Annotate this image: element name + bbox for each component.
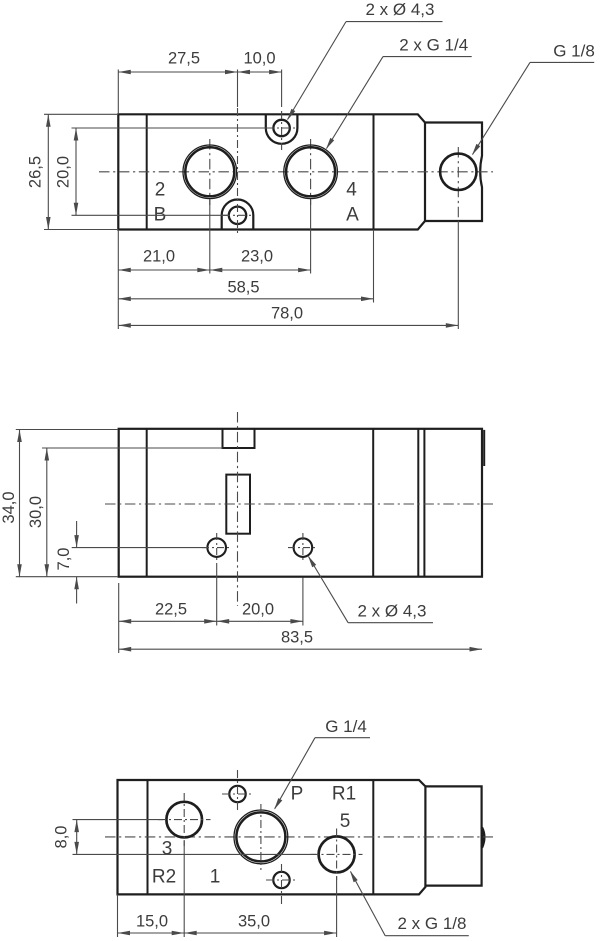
mounting hole top circle	[273, 120, 289, 136]
bottom view: horizontal centreline	[105, 836, 493, 838]
port 5 circle	[319, 836, 355, 872]
svg-text:2 x G 1/4: 2 x G 1/4	[399, 35, 468, 54]
extension line port3 below	[183, 840, 185, 937]
dimension 34,0	[19, 430, 21, 577]
extension line port2 below	[209, 200, 211, 274]
extension line end-cap below	[373, 230, 375, 303]
extension line hole H1 level	[72, 127, 274, 129]
svg-text:P: P	[291, 784, 304, 805]
svg-text:20,0: 20,0	[242, 600, 274, 618]
side view: horizontal centreline	[105, 503, 493, 505]
port P crosshair vertical	[260, 804, 262, 870]
svg-text:G 1/8: G 1/8	[553, 41, 595, 60]
bottom view: extension block	[425, 786, 481, 885]
extension line tab bottom	[42, 447, 223, 449]
extension line bottom face	[16, 576, 118, 578]
dimension 83,5	[119, 648, 482, 650]
svg-text:15,0: 15,0	[136, 912, 168, 930]
top view: right extension block with thread break-out arc	[425, 123, 482, 222]
extension line hole H1 vertical	[281, 70, 283, 108]
side view: mounting hole right	[294, 538, 313, 557]
svg-text:3: 3	[162, 839, 173, 860]
side view: body outline	[119, 429, 482, 577]
side view: chamfer edge b	[423, 429, 425, 577]
dimension 8,0 extension upper	[73, 819, 164, 821]
svg-text:5: 5	[340, 811, 351, 832]
dimension 58,5	[118, 298, 373, 300]
svg-text:10,0: 10,0	[243, 49, 275, 67]
dimension 10,0	[238, 71, 282, 73]
mounting hole bottom crosshair	[237, 108, 239, 236]
port 4 centreline vertical	[310, 139, 312, 205]
svg-text:58,5: 58,5	[227, 278, 259, 296]
extension line body left below (side)	[118, 583, 120, 653]
svg-text:G 1/4: G 1/4	[325, 717, 367, 736]
extension line port4 below	[310, 200, 312, 274]
extension line body left top	[117, 70, 119, 115]
mounting hole bottom (Ø 4,3) recess arch	[222, 200, 254, 230]
extension line top face	[16, 429, 118, 431]
extension line side-port below	[457, 221, 459, 329]
svg-text:2: 2	[155, 180, 166, 201]
side view: flange edge	[146, 429, 148, 577]
extension line body left below	[117, 230, 119, 330]
dimension 27,5	[118, 71, 237, 73]
dimension 26,5	[47, 114, 49, 229]
top view: end-cap edge line	[373, 114, 375, 229]
bottom hole lower crosshair	[281, 864, 283, 906]
extension line body bottom-left	[44, 229, 117, 231]
extension line hole1 below	[216, 563, 218, 626]
svg-text:26,5: 26,5	[26, 156, 44, 188]
top view: left flange edge line	[146, 114, 148, 229]
mounting hole bottom circle	[229, 207, 246, 224]
svg-text:A: A	[346, 205, 359, 226]
side view: mounting hole left crosshair	[216, 533, 218, 562]
port P (G 1/4) circle	[234, 810, 288, 864]
port 3 circle	[166, 802, 202, 838]
dimension 78,0	[118, 324, 458, 326]
mounting hole top crosshair	[281, 111, 283, 150]
svg-text:8,0: 8,0	[52, 826, 70, 849]
svg-text:83,5: 83,5	[281, 628, 313, 646]
svg-text:78,0: 78,0	[271, 304, 303, 322]
side view: mounting hole left	[207, 538, 226, 557]
svg-text:R1: R1	[332, 784, 356, 805]
dimension 20,0 (side)	[217, 620, 303, 622]
bottom view: side-port edge arc	[482, 828, 484, 848]
mounting hole top (Ø 4,3) recess arch	[266, 114, 298, 144]
svg-text:2 x Ø 4,3: 2 x Ø 4,3	[358, 601, 427, 620]
svg-text:20,0: 20,0	[54, 156, 72, 188]
bottom view: flange edge	[147, 780, 149, 894]
svg-text:35,0: 35,0	[238, 912, 270, 930]
extension line hole level	[72, 547, 207, 549]
top view: horizontal centreline	[99, 171, 493, 173]
port 4 (G 1/4) thread circle	[284, 145, 338, 199]
svg-text:2 x Ø 4,3: 2 x Ø 4,3	[366, 0, 435, 19]
dimension 20,0 (holes)	[75, 128, 77, 215]
svg-text:23,0: 23,0	[241, 247, 273, 265]
extension line body top-left	[44, 113, 117, 115]
bottom view: end-cap edge	[372, 780, 374, 894]
side view: right corner chamfer line	[483, 430, 485, 466]
dimension 15,0	[118, 932, 185, 934]
bottom view: valve body outline	[118, 780, 426, 894]
extension line hole H2 vertical	[237, 70, 239, 108]
extension line body left (bottom view)	[117, 894, 119, 937]
port 3 crosshair	[183, 793, 185, 846]
side port (G 1/8) circle	[440, 154, 476, 190]
side port centreline vertical	[457, 147, 459, 221]
dimension 8,0	[76, 820, 78, 855]
dimension 22,5	[119, 620, 217, 622]
svg-text:34,0: 34,0	[0, 491, 18, 523]
svg-text:21,0: 21,0	[143, 247, 175, 265]
bottom hole top crosshair	[237, 770, 239, 812]
extension line port5 below	[336, 876, 338, 937]
side view: mounting hole right crosshair	[302, 533, 304, 562]
bottom hole lower (Ø 4,3)	[273, 872, 289, 888]
svg-text:27,5: 27,5	[168, 49, 200, 67]
svg-text:7,0: 7,0	[55, 548, 73, 571]
dimension 21,0	[118, 269, 210, 271]
side view: end-cap edge	[372, 429, 374, 577]
svg-text:1: 1	[210, 867, 221, 888]
bottom hole top (Ø 4,3)	[229, 786, 245, 802]
side view: chamfer edge a	[417, 429, 419, 577]
side view: spool slot	[226, 475, 250, 534]
port 5 crosshair	[336, 829, 338, 881]
extension line hole2 below	[302, 578, 304, 626]
svg-text:30,0: 30,0	[27, 496, 45, 528]
top view: valve body outline	[118, 114, 425, 229]
svg-text:22,5: 22,5	[155, 600, 187, 618]
svg-text:R2: R2	[152, 867, 176, 888]
extension line hole H2 level	[72, 214, 229, 216]
dimension 30,0	[46, 448, 48, 577]
dimension 35,0	[184, 932, 336, 934]
dimension 8,0 extension lower	[73, 853, 317, 855]
side view: pilot axis centreline	[237, 412, 239, 606]
side view: pilot tab	[223, 430, 255, 449]
dimension 7,0 (outside arrows)	[76, 521, 78, 548]
svg-text:4: 4	[346, 180, 357, 201]
dimension 23,0	[210, 269, 311, 271]
port 2 centreline vertical	[209, 139, 211, 205]
svg-text:2 x G 1/8: 2 x G 1/8	[398, 914, 467, 933]
port 2 (G 1/4) thread circle	[183, 145, 237, 199]
